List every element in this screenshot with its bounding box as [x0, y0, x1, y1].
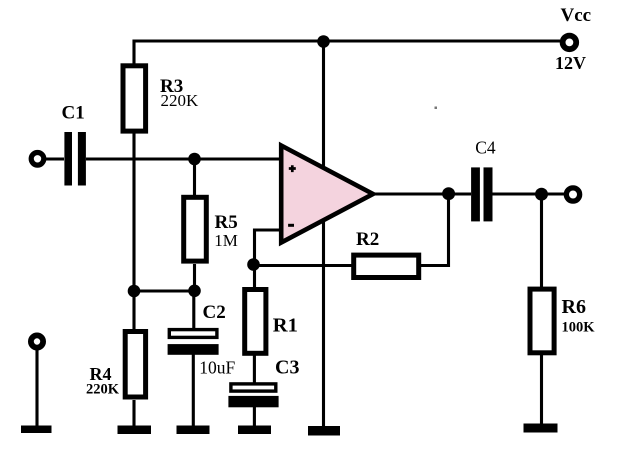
svg-text:10uF: 10uF: [199, 358, 235, 378]
svg-text:R5: R5: [215, 212, 238, 233]
svg-text:12V: 12V: [555, 53, 586, 73]
svg-text:Vcc: Vcc: [561, 5, 592, 26]
svg-text:R1: R1: [273, 315, 298, 337]
svg-text:1M: 1M: [214, 231, 238, 250]
svg-text:C4: C4: [475, 137, 496, 157]
svg-text:100K: 100K: [562, 320, 596, 336]
svg-text:R6: R6: [562, 296, 586, 318]
svg-text:C2: C2: [203, 302, 226, 323]
svg-text:220K: 220K: [86, 382, 120, 398]
svg-text:C3: C3: [275, 357, 299, 379]
svg-text:R2: R2: [356, 229, 379, 250]
svg-text:C1: C1: [62, 103, 85, 124]
svg-text:220K: 220K: [161, 91, 200, 110]
